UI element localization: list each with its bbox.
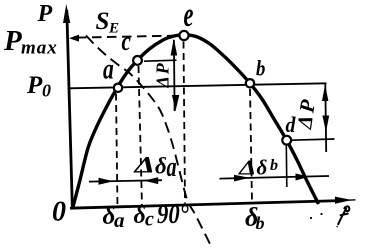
svg-text:ΔP: ΔP xyxy=(153,61,173,88)
svg-text:max: max xyxy=(21,38,58,59)
svg-text:a: a xyxy=(167,152,177,183)
svg-text:90°: 90° xyxy=(157,200,189,229)
svg-text:Δ: Δ xyxy=(238,157,257,180)
svg-text:0: 0 xyxy=(42,81,51,101)
svg-text:E: E xyxy=(108,21,119,37)
svg-text:c: c xyxy=(145,209,154,231)
svg-text:Δ: Δ xyxy=(133,153,155,178)
svg-text:ΔP: ΔP xyxy=(292,95,320,131)
svg-text:b: b xyxy=(270,157,278,174)
svg-text:δ: δ xyxy=(134,203,146,229)
svg-text:S: S xyxy=(96,8,110,35)
svg-text:P: P xyxy=(3,25,22,57)
svg-text:a: a xyxy=(103,52,114,85)
svg-text:δ: δ xyxy=(257,156,268,180)
svg-text:c: c xyxy=(122,27,132,57)
svg-text:δ: δ xyxy=(155,154,167,179)
svg-text:P: P xyxy=(37,1,53,27)
svg-text:a: a xyxy=(114,208,125,232)
svg-text:0: 0 xyxy=(52,197,66,228)
svg-text:b: b xyxy=(256,213,265,233)
svg-text:b: b xyxy=(256,57,265,81)
svg-text:P: P xyxy=(26,72,43,99)
svg-text:e: e xyxy=(184,0,194,34)
